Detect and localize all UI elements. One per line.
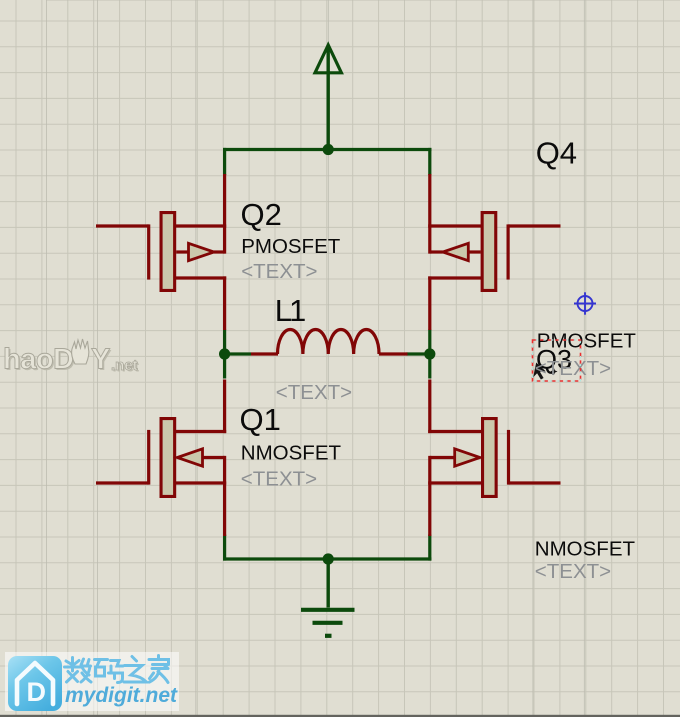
junction dot: node A (left of L1) (219, 348, 230, 359)
svg-text:Q4: Q4 (536, 136, 577, 171)
Q2 gate lead (96, 224, 149, 227)
Q1 pin stubs on rail (223, 380, 226, 434)
svg-text:haoD: haoD (3, 344, 74, 376)
wire: power stem (327, 47, 330, 150)
svg-text:<TEXT>: <TEXT> (241, 467, 317, 490)
mouse cursor (533, 363, 546, 380)
Q2 drain lead (175, 224, 227, 227)
Q4 source lead (428, 276, 482, 279)
svg-text:NMOSFET: NMOSFET (535, 538, 636, 561)
svg-text:mydigit.net: mydigit.net (65, 684, 178, 707)
Q1 gate lead (96, 481, 149, 484)
wire: right rail mid green segment at L1 node (428, 330, 431, 379)
Q2 source lead (175, 276, 227, 279)
Q4 pin stubs on rail (428, 174, 431, 254)
Q2 gate plate (147, 224, 150, 279)
svg-text:PMOSFET: PMOSFET (241, 235, 341, 258)
Q3 gate lead (509, 481, 561, 484)
Q2 channel bar (160, 211, 177, 292)
Q1 drain lead (175, 430, 227, 433)
Q2 bulk arrow (176, 250, 188, 253)
Q1 channel bar (160, 417, 177, 498)
svg-text:Y: Y (91, 344, 110, 376)
svg-text:Q2: Q2 (241, 197, 282, 232)
transistor Q4 (PMOSFET top-right) (428, 174, 560, 330)
wire: right rail lower green stub (428, 535, 431, 561)
transistor Q2 (PMOSFET top-left) (96, 174, 226, 330)
Q1 source lead (175, 481, 227, 484)
wire: L1 left green stub (225, 352, 251, 355)
svg-text:<TEXT>: <TEXT> (241, 260, 317, 283)
svg-text:<TEXT>: <TEXT> (535, 560, 611, 583)
transistor Q1 (NMOSFET bottom-left) (96, 380, 226, 537)
ground symbol (327, 559, 330, 608)
Q1 gate plate (147, 430, 150, 485)
wire: left rail mid green segment at L1 node (223, 330, 226, 379)
svg-text:Q1: Q1 (240, 402, 281, 437)
junction dot: top node (323, 144, 334, 155)
svg-text:<TEXT>: <TEXT> (535, 357, 611, 380)
watermark CJK 数码之家 (65, 656, 169, 683)
Q4 gate plate (507, 224, 510, 279)
svg-text:<TEXT>: <TEXT> (276, 381, 352, 404)
svg-text:D: D (27, 677, 47, 707)
svg-text:L1: L1 (275, 293, 305, 328)
watermark haoDIY.net (3, 339, 139, 377)
transistor Q3 (NMOSFET bottom-right) (428, 380, 560, 537)
Q4 channel bar (481, 211, 498, 292)
node origin crosshair (574, 292, 596, 314)
wire: L1 right green stub (407, 352, 430, 355)
Q3 gate plate (507, 430, 510, 485)
wire: left rail upper green stub (223, 148, 226, 175)
wire: left rail lower green stub (223, 535, 226, 561)
Q3 channel bar (481, 417, 498, 498)
junction dot: bottom node (323, 553, 334, 564)
svg-text:NMOSFET: NMOSFET (241, 442, 342, 465)
selection box (dashed) (533, 340, 581, 381)
Q4 gate lead (508, 224, 560, 227)
inductor L1 (251, 352, 278, 355)
junction dot: node B (right of L1) (424, 348, 435, 359)
power symbol arrow (315, 45, 341, 73)
wire: right rail upper green stub (428, 148, 431, 175)
Q3 pin stubs on rail (428, 380, 431, 434)
Q3 bulk arrow (430, 456, 455, 459)
Q3 drain lead (428, 430, 482, 433)
watermark mydigit logo backing (5, 652, 179, 711)
wire: top horizontal rail VCC net (223, 148, 431, 151)
wire: bottom horizontal rail GND net (223, 557, 431, 560)
bottom edge (0, 715, 680, 717)
Q2 pin stubs on rail (223, 174, 226, 254)
Q1 bulk arrow (203, 456, 225, 459)
svg-text:.net: .net (111, 357, 138, 374)
Q4 bulk arrow (468, 250, 480, 253)
Q3 source lead (428, 481, 482, 484)
Q4 drain lead (428, 224, 482, 227)
